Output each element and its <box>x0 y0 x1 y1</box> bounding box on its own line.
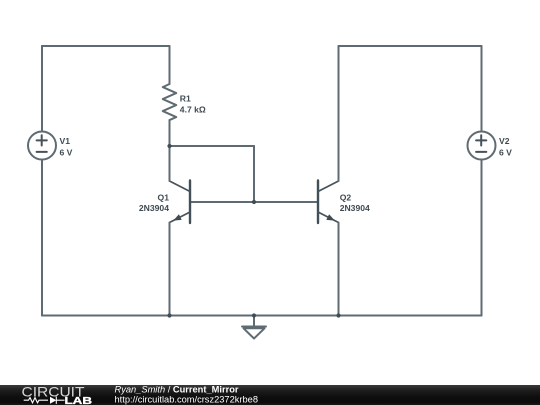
footer bar <box>0 385 540 405</box>
wire bottom rail <box>42 315 482 317</box>
svg-text:2N3904: 2N3904 <box>139 203 169 213</box>
svg-text:2N3904: 2N3904 <box>340 203 370 213</box>
node B junction dot (base) <box>252 200 256 204</box>
wire Q1 collector <box>169 146 171 181</box>
svg-text:V2: V2 <box>499 136 510 146</box>
label R1 value <box>180 93 206 114</box>
wire top-left rail <box>42 45 170 47</box>
wire left rail lower <box>41 160 43 316</box>
CircuitLab logo <box>22 384 93 405</box>
wire right rail lower <box>481 160 483 316</box>
svg-text:LAB: LAB <box>65 396 93 405</box>
voltage source V1 <box>28 132 56 160</box>
label V2 value <box>499 136 512 157</box>
svg-text:6 V: 6 V <box>60 148 73 158</box>
label Q1 value <box>139 192 169 213</box>
voltage source V2 <box>468 132 496 160</box>
junction Q1 emitter / bottom rail <box>167 313 171 317</box>
label V1 value <box>60 136 73 157</box>
wire node A to center <box>170 145 255 147</box>
wire Q2 collector <box>338 46 340 181</box>
svg-text:Q1: Q1 <box>158 192 170 202</box>
junction ground / bottom rail <box>252 313 256 317</box>
label Q2 value <box>340 192 370 213</box>
wire center vertical to base node <box>253 146 255 202</box>
footer title text <box>115 384 259 404</box>
svg-text:6 V: 6 V <box>499 148 512 158</box>
wire left rail upper <box>41 46 43 132</box>
wire top-right rail <box>339 45 482 47</box>
svg-text:V1: V1 <box>60 136 71 146</box>
wire Q1 emitter <box>169 223 171 316</box>
resistor R1 <box>163 46 177 146</box>
junction Q2 emitter / bottom rail <box>336 313 340 317</box>
svg-text:http://circuitlab.com/crsz2372: http://circuitlab.com/crsz2372krbe8 <box>115 395 259 405</box>
svg-text:R1: R1 <box>180 93 191 103</box>
ground <box>242 316 266 339</box>
svg-text:Ryan_Smith / Current_Mirror: Ryan_Smith / Current_Mirror <box>115 384 239 394</box>
svg-text:4.7 kΩ: 4.7 kΩ <box>180 105 206 115</box>
transistor Q2 <box>318 181 339 224</box>
wire right rail upper <box>481 46 483 132</box>
transistor Q1 <box>170 181 191 224</box>
node A junction dot <box>167 144 171 148</box>
wire base Q1 to Q2 <box>190 201 318 203</box>
wire Q2 emitter <box>338 223 340 316</box>
svg-text:Q2: Q2 <box>340 192 352 202</box>
